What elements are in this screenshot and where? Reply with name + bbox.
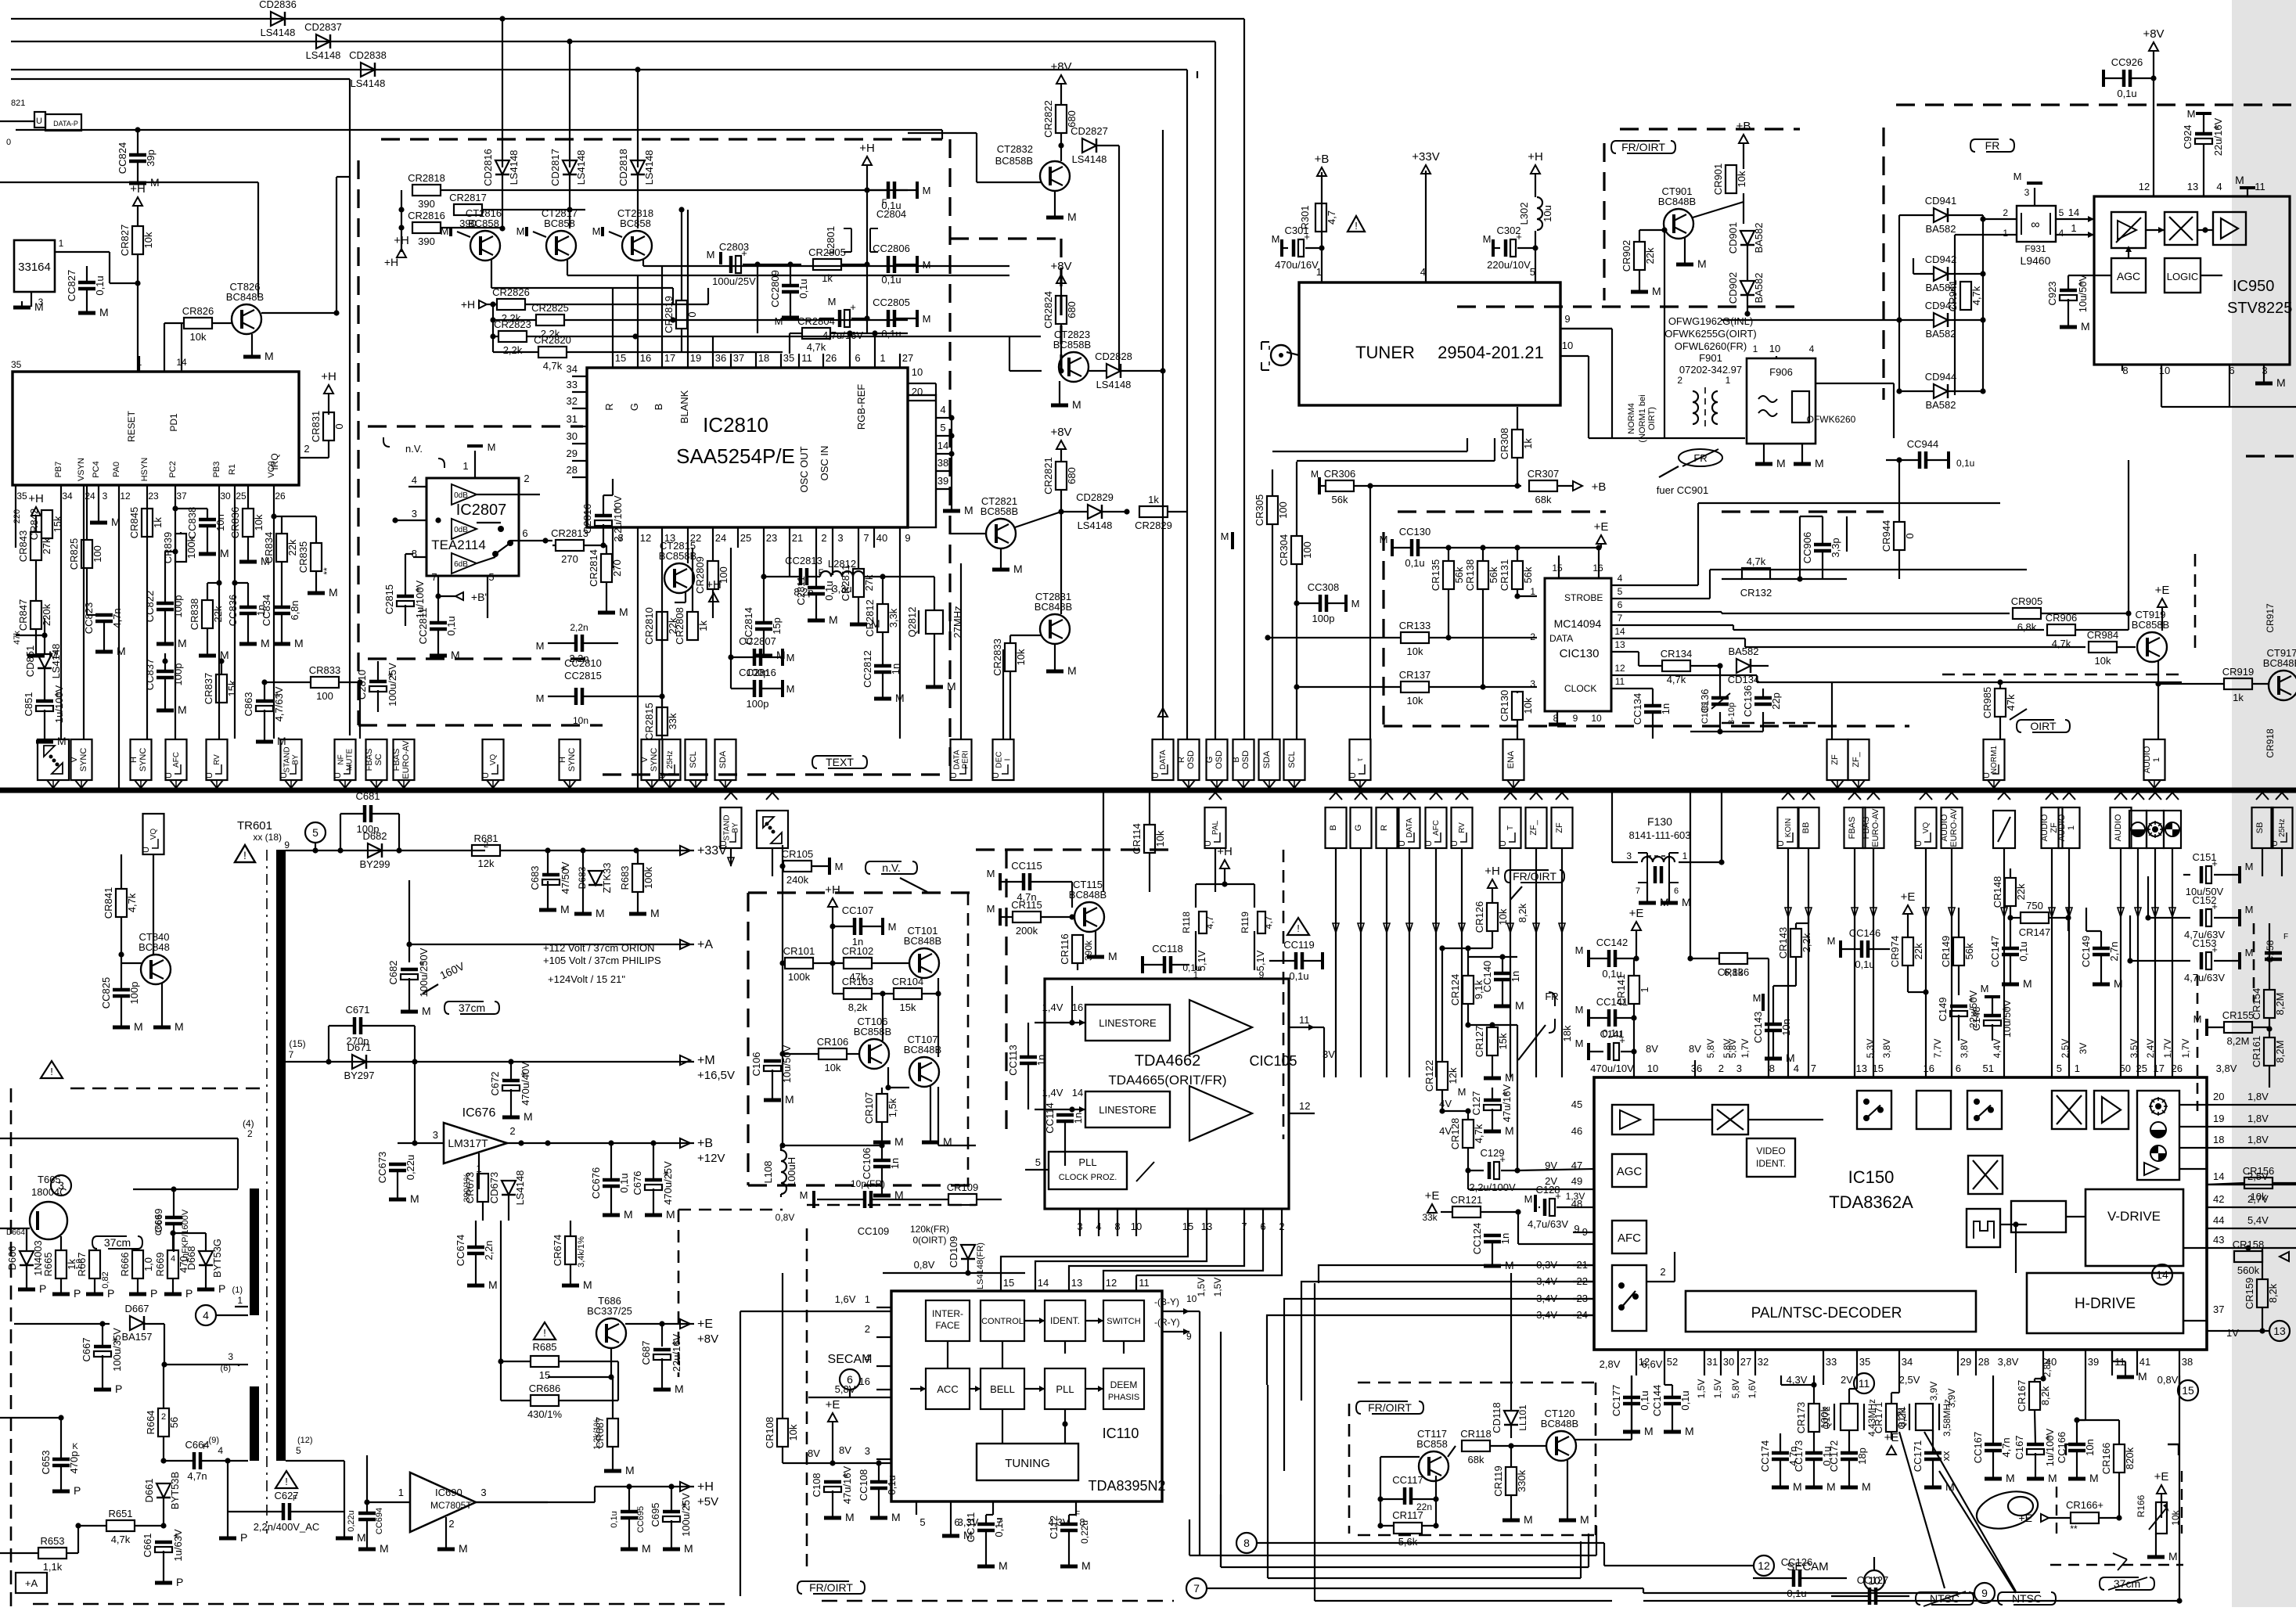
svg-text:15k: 15k <box>226 680 238 696</box>
svg-text:R653: R653 <box>40 1535 64 1547</box>
svg-text:DATA: DATA <box>953 750 962 770</box>
svg-text:M: M <box>178 703 187 716</box>
svg-text:38: 38 <box>2182 1356 2193 1368</box>
svg-text:CR2826: CR2826 <box>492 286 530 298</box>
svg-text:34: 34 <box>567 363 578 375</box>
svg-text:CC694: CC694 <box>375 1508 384 1534</box>
svg-text:1k: 1k <box>697 620 709 631</box>
svg-text:BLANK: BLANK <box>678 390 690 423</box>
svg-text:CR2833: CR2833 <box>991 638 1003 676</box>
svg-text:7: 7 <box>863 532 869 544</box>
svg-text:27k: 27k <box>863 574 875 591</box>
svg-text:CC144: CC144 <box>1651 1385 1663 1416</box>
svg-text:4: 4 <box>1618 573 1623 584</box>
svg-text:1n: 1n <box>1660 703 1672 714</box>
svg-text:220k: 220k <box>41 603 52 626</box>
svg-text:LS4148: LS4148 <box>1078 520 1113 531</box>
svg-text:26: 26 <box>275 491 286 502</box>
svg-text:3: 3 <box>2024 187 2030 198</box>
svg-text:3: 3 <box>433 1129 438 1141</box>
svg-text:BA157: BA157 <box>121 1331 152 1343</box>
svg-text:M: M <box>516 225 525 237</box>
svg-text:CR109: CR109 <box>947 1181 978 1193</box>
svg-text:M: M <box>828 296 837 307</box>
svg-text:CR307: CR307 <box>1528 468 1559 480</box>
svg-text:470u/25V: 470u/25V <box>662 1161 674 1205</box>
svg-text:27: 27 <box>902 352 913 364</box>
svg-text:BC858B: BC858B <box>981 505 1018 517</box>
svg-text:0,1u: 0,1u <box>797 279 809 298</box>
svg-text:1k: 1k <box>822 272 833 284</box>
svg-text:R1: R1 <box>228 464 237 475</box>
svg-text:BB: BB <box>1801 822 1811 834</box>
svg-text:CR2823: CR2823 <box>494 318 531 330</box>
svg-text:CR686: CR686 <box>529 1383 560 1394</box>
svg-text:30: 30 <box>567 430 578 442</box>
svg-text:M: M <box>2235 174 2244 186</box>
svg-text:!: ! <box>543 1327 546 1339</box>
svg-text:L302: L302 <box>1518 203 1530 225</box>
svg-text:C687: C687 <box>640 1340 652 1365</box>
svg-text:18: 18 <box>758 352 769 364</box>
svg-text:M: M <box>117 645 126 657</box>
svg-text:56: 56 <box>168 1417 180 1428</box>
svg-text:1,5V: 1,5V <box>1212 1278 1223 1297</box>
svg-text:2,7n: 2,7n <box>2108 941 2120 961</box>
svg-text:IC950: IC950 <box>2233 278 2274 295</box>
svg-text:43: 43 <box>2213 1234 2224 1246</box>
svg-text:BC858: BC858 <box>620 218 651 229</box>
svg-text:CC109: CC109 <box>858 1225 889 1237</box>
svg-text:1: 1 <box>1682 850 1688 861</box>
svg-text:M: M <box>624 1208 633 1221</box>
svg-text:M: M <box>2168 1550 2178 1562</box>
svg-text:CR918: CR918 <box>2265 728 2276 758</box>
svg-text:OFWL6260(FR): OFWL6260(FR) <box>1675 340 1747 352</box>
svg-text:100u/25V: 100u/25V <box>712 275 756 287</box>
svg-text:3: 3 <box>58 1179 64 1192</box>
svg-text:+H: +H <box>825 883 840 897</box>
svg-text:7: 7 <box>289 1049 294 1060</box>
svg-text:AUDIO: AUDIO <box>2057 814 2067 841</box>
svg-text:R118: R118 <box>1181 912 1192 933</box>
svg-text:1n: 1n <box>1510 971 1521 982</box>
svg-text:27: 27 <box>1740 1356 1751 1368</box>
svg-text:M: M <box>1013 563 1023 575</box>
svg-text:M: M <box>488 441 496 453</box>
svg-text:KOIN: KOIN <box>1784 818 1793 837</box>
svg-text:AUDIO: AUDIO <box>1940 814 1949 841</box>
svg-text:BC858B: BC858B <box>995 155 1033 167</box>
svg-text:CR308: CR308 <box>1499 428 1510 459</box>
svg-text:M: M <box>1380 534 1388 545</box>
svg-text:4,7: 4,7 <box>1204 915 1215 929</box>
svg-text:21: 21 <box>792 532 803 544</box>
svg-text:C136: C136 <box>1700 703 1710 724</box>
svg-text:470u/40V: 470u/40V <box>520 1062 531 1106</box>
svg-text:10k: 10k <box>1407 645 1423 657</box>
svg-text:ZTK33: ZTK33 <box>601 862 613 893</box>
svg-text:M: M <box>1862 1480 1871 1493</box>
svg-text:+H: +H <box>461 298 475 311</box>
svg-text:4,7k: 4,7k <box>2052 638 2071 649</box>
svg-text:!: ! <box>1297 922 1300 934</box>
svg-text:U: U <box>205 772 214 779</box>
svg-text:M: M <box>536 692 545 704</box>
svg-text:15: 15 <box>2182 1384 2194 1397</box>
svg-text:12: 12 <box>2139 181 2150 192</box>
svg-text:CR121: CR121 <box>1451 1194 1482 1206</box>
svg-text:IC2810: IC2810 <box>703 413 768 437</box>
svg-text:M: M <box>1575 1004 1584 1016</box>
svg-text:L2801: L2801 <box>825 226 837 254</box>
svg-text:CR305: CR305 <box>1254 494 1265 526</box>
svg-text:4V: 4V <box>1439 1098 1452 1109</box>
svg-text:PERI: PERI <box>962 750 970 768</box>
svg-text:SB: SB <box>2255 822 2265 834</box>
svg-text:3,8V: 3,8V <box>2216 1063 2237 1074</box>
svg-text:4: 4 <box>203 1309 209 1322</box>
svg-text:11: 11 <box>2255 181 2265 192</box>
svg-text:TUNING: TUNING <box>1005 1457 1050 1470</box>
svg-text:7: 7 <box>431 571 437 583</box>
svg-text:CC126: CC126 <box>1781 1556 1812 1568</box>
svg-text:M: M <box>220 547 229 559</box>
svg-text:CD2818: CD2818 <box>617 149 629 186</box>
svg-text:M: M <box>1524 1513 1533 1526</box>
svg-text:SECAM: SECAM <box>828 1353 873 1366</box>
svg-text:SYNC: SYNC <box>139 748 148 772</box>
svg-text:CC906: CC906 <box>1801 532 1813 563</box>
svg-text:+112 Volt / 37cm ORION: +112 Volt / 37cm ORION <box>543 942 654 954</box>
svg-text:CR841: CR841 <box>103 887 114 919</box>
svg-text:M: M <box>1827 935 1836 947</box>
svg-text:CC177: CC177 <box>1610 1385 1622 1416</box>
svg-text:M: M <box>380 1542 389 1555</box>
svg-text:CR166+: CR166+ <box>2066 1499 2103 1511</box>
svg-text:4,7u/63V: 4,7u/63V <box>1528 1218 1568 1230</box>
svg-text:R: R <box>1177 757 1186 763</box>
svg-text:C2803: C2803 <box>719 241 749 253</box>
svg-text:4,7k: 4,7k <box>807 341 826 353</box>
svg-text:1,7V: 1,7V <box>2162 1039 2173 1059</box>
svg-text:OSD: OSD <box>1241 750 1251 769</box>
svg-text:(4): (4) <box>243 1118 254 1129</box>
svg-text:R683: R683 <box>619 865 631 890</box>
svg-text:PD1: PD1 <box>168 413 179 432</box>
svg-text:M: M <box>1458 1086 1466 1098</box>
svg-text:0,22u: 0,22u <box>1079 1520 1090 1544</box>
svg-text:CR171: CR171 <box>1873 1402 1884 1433</box>
svg-text:2V: 2V <box>1841 1374 1853 1386</box>
svg-text:C924: C924 <box>2182 124 2193 149</box>
svg-text:15p: 15p <box>771 617 783 635</box>
svg-text:120k(FR): 120k(FR) <box>910 1224 949 1235</box>
svg-text:33164: 33164 <box>18 261 51 274</box>
svg-text:25Hz: 25Hz <box>666 750 675 768</box>
svg-text:LS4148: LS4148 <box>50 644 62 679</box>
svg-text:(15): (15) <box>289 1038 305 1049</box>
svg-text:CC837: CC837 <box>144 659 156 690</box>
svg-text:0: 0 <box>1904 533 1916 538</box>
svg-text:6dB: 6dB <box>454 560 468 569</box>
svg-text:BC848B: BC848B <box>1658 196 1696 207</box>
svg-text:CR124: CR124 <box>1449 974 1461 1005</box>
svg-text:PC2: PC2 <box>168 461 178 477</box>
svg-text:C2815: C2815 <box>383 584 395 614</box>
svg-text:OSD: OSD <box>1186 750 1196 769</box>
svg-text:M: M <box>775 315 783 327</box>
svg-text:6,6V: 6,6V <box>1642 1358 1663 1370</box>
svg-text:1,1k: 1,1k <box>43 1561 63 1573</box>
svg-text:4,4V: 4,4V <box>1992 1039 2003 1059</box>
svg-text:M: M <box>987 868 995 879</box>
svg-text:+M: +M <box>697 1054 715 1067</box>
svg-text:8,2k: 8,2k <box>2267 1283 2279 1303</box>
svg-text:M: M <box>786 683 795 695</box>
svg-text:100u/25V: 100u/25V <box>387 663 398 707</box>
svg-text:1: 1 <box>2071 222 2076 234</box>
svg-text:H-DRIVE: H-DRIVE <box>2075 1296 2136 1312</box>
svg-text:CR116: CR116 <box>1059 933 1071 965</box>
svg-text:U: U <box>1398 840 1407 847</box>
svg-text:13: 13 <box>2273 1325 2286 1337</box>
svg-text:7: 7 <box>1811 1063 1816 1074</box>
svg-text:HSYN: HSYN <box>140 458 149 482</box>
svg-text:10k: 10k <box>253 514 265 530</box>
svg-text:37: 37 <box>2213 1304 2224 1315</box>
svg-text:TUNER: TUNER <box>1355 343 1415 362</box>
svg-text:BA582: BA582 <box>1925 223 1956 235</box>
svg-text:CR115: CR115 <box>1011 899 1042 911</box>
svg-text:LS4148: LS4148 <box>306 49 341 61</box>
svg-text:24: 24 <box>715 532 726 544</box>
svg-text:2,2n: 2,2n <box>570 622 588 633</box>
svg-text:4,7u/63V: 4,7u/63V <box>2184 972 2225 984</box>
svg-text:(1): (1) <box>232 1286 243 1295</box>
svg-text:2: 2 <box>524 473 529 484</box>
svg-text:C661: C661 <box>142 1533 153 1557</box>
svg-text:7,7V: 7,7V <box>1932 1039 1943 1059</box>
svg-text:M: M <box>441 225 449 237</box>
svg-text:M: M <box>1644 1425 1654 1437</box>
svg-text:CC108: CC108 <box>858 1469 869 1501</box>
svg-text:C681: C681 <box>355 790 380 802</box>
svg-text:SYNC: SYNC <box>567 748 577 772</box>
svg-text:52: 52 <box>1667 1356 1678 1368</box>
svg-text:3,8V: 3,8V <box>1998 1356 2019 1368</box>
svg-text:LS4148: LS4148 <box>508 150 520 185</box>
svg-text:M: M <box>57 735 67 747</box>
svg-text:2,2n: 2,2n <box>483 1240 495 1260</box>
svg-text:4,7: 4,7 <box>1326 210 1337 225</box>
svg-text:+8V: +8V <box>1050 426 1071 439</box>
svg-text:NORM4: NORM4 <box>1627 403 1636 434</box>
svg-text:M: M <box>2138 1370 2147 1383</box>
svg-text:M: M <box>963 1529 973 1541</box>
svg-text:VQ: VQ <box>489 754 498 766</box>
svg-text:+E: +E <box>1425 1189 1440 1203</box>
svg-text:M: M <box>1515 999 1524 1012</box>
svg-text:G: G <box>628 403 640 411</box>
svg-text:0,22u: 0,22u <box>405 1155 416 1181</box>
svg-text:1,6V: 1,6V <box>835 1293 856 1305</box>
svg-text:1,5V: 1,5V <box>1196 1278 1207 1297</box>
svg-text:3,4k/1%: 3,4k/1% <box>577 1236 586 1268</box>
svg-text:29: 29 <box>1960 1356 1971 1368</box>
svg-text:42: 42 <box>2213 1193 2224 1205</box>
svg-text:+H: +H <box>394 234 409 247</box>
svg-text:14: 14 <box>2068 207 2079 218</box>
svg-text:100k: 100k <box>185 536 197 559</box>
svg-text:C106: C106 <box>750 1052 762 1076</box>
svg-text:3,3p: 3,3p <box>1830 538 1841 557</box>
svg-text:40: 40 <box>876 532 887 544</box>
svg-text:5: 5 <box>312 826 318 839</box>
svg-text:B: B <box>1329 825 1338 830</box>
svg-text:M: M <box>1311 469 1319 480</box>
svg-text:2,2u/100V: 2,2u/100V <box>1469 1181 1516 1193</box>
svg-text:CC134: CC134 <box>1632 693 1643 725</box>
svg-text:CR2810: CR2810 <box>643 607 655 645</box>
svg-text:2: 2 <box>821 532 826 544</box>
svg-text:0(OIRT): 0(OIRT) <box>912 1235 946 1246</box>
svg-text:BYT53B: BYT53B <box>169 1472 181 1509</box>
svg-text:M: M <box>2089 1472 2099 1484</box>
svg-text:M: M <box>459 1542 468 1555</box>
svg-text:D661: D661 <box>143 1478 155 1502</box>
svg-text:M: M <box>1067 210 1077 223</box>
svg-text:CR117: CR117 <box>1392 1509 1423 1521</box>
svg-text:M: M <box>923 185 931 196</box>
svg-text:RV: RV <box>1458 822 1466 833</box>
svg-text:C129: C129 <box>1480 1147 1504 1159</box>
svg-text:9: 9 <box>1564 313 1570 325</box>
svg-text:6: 6 <box>855 352 860 364</box>
svg-text:M: M <box>891 1511 901 1523</box>
svg-text:11: 11 <box>1299 1014 1310 1026</box>
svg-text:0,1u: 0,1u <box>1639 1390 1650 1410</box>
svg-text:4: 4 <box>171 1254 175 1264</box>
svg-text:RESET: RESET <box>126 410 137 442</box>
svg-text:C151: C151 <box>2192 851 2216 863</box>
svg-text:IC110: IC110 <box>1103 1426 1139 1441</box>
svg-text:τ: τ <box>1356 758 1365 761</box>
svg-text:22u/16V: 22u/16V <box>2212 117 2224 156</box>
svg-text:0,1u: 0,1u <box>445 616 457 635</box>
svg-text:BC858: BC858 <box>468 218 499 229</box>
svg-text:1k: 1k <box>1148 494 1159 505</box>
svg-text:1: 1 <box>1753 343 1758 354</box>
svg-text:3: 3 <box>1736 1063 1742 1074</box>
svg-text:1,6V: 1,6V <box>1747 1379 1758 1399</box>
svg-text:H: H <box>558 757 567 763</box>
svg-text:+B': +B' <box>471 591 487 603</box>
svg-text:C667: C667 <box>81 1337 92 1361</box>
svg-text:35: 35 <box>11 359 22 370</box>
svg-text:14: 14 <box>1038 1277 1049 1289</box>
svg-text:39p: 39p <box>145 149 157 167</box>
svg-text:47u/16V: 47u/16V <box>1501 1084 1513 1122</box>
svg-text:2: 2 <box>484 840 488 850</box>
svg-text:CR984: CR984 <box>2087 629 2118 641</box>
svg-text:BC858B: BC858B <box>2132 619 2169 631</box>
svg-text:15: 15 <box>1003 1277 1014 1289</box>
svg-text:22k: 22k <box>286 539 298 556</box>
svg-text:FR: FR <box>1545 991 1558 1002</box>
svg-text:220: 220 <box>13 509 22 523</box>
svg-text:C653: C653 <box>40 1450 52 1474</box>
svg-text:M: M <box>488 1278 498 1291</box>
svg-text:0: 0 <box>6 138 11 147</box>
svg-text:+H: +H <box>130 182 146 196</box>
svg-text:CD851: CD851 <box>24 645 36 677</box>
svg-text:5,1V: 5,1V <box>1254 950 1266 971</box>
svg-text:CR902: CR902 <box>1621 240 1632 271</box>
svg-text:CC2806: CC2806 <box>873 243 910 254</box>
svg-text:PB7: PB7 <box>54 462 63 478</box>
svg-text:+E: +E <box>826 1398 840 1411</box>
svg-text:CR2825: CR2825 <box>531 302 569 314</box>
svg-text:3,8V: 3,8V <box>1959 1039 1970 1059</box>
svg-text:CR842: CR842 <box>28 509 40 540</box>
svg-text:19: 19 <box>690 352 701 364</box>
svg-text:CR941: CR941 <box>1947 280 1959 311</box>
svg-text:CC2812: CC2812 <box>862 650 873 688</box>
svg-text:CR919: CR919 <box>2222 666 2254 678</box>
svg-text:+B: +B <box>697 1137 713 1150</box>
svg-text:TDA8395N2: TDA8395N2 <box>1088 1478 1165 1494</box>
svg-text:34: 34 <box>1902 1356 1913 1368</box>
svg-text:+E: +E <box>1901 890 1916 904</box>
svg-text:M: M <box>99 306 109 318</box>
svg-text:CR130: CR130 <box>1499 690 1510 721</box>
svg-text:CD118: CD118 <box>1491 1402 1502 1433</box>
svg-text:4,7n: 4,7n <box>111 608 123 627</box>
svg-text:0,1u: 0,1u <box>1289 970 1308 982</box>
svg-text:LS4148: LS4148 <box>575 150 587 185</box>
svg-text:390: 390 <box>418 198 435 210</box>
svg-text:M: M <box>583 1278 592 1291</box>
svg-text:AGC: AGC <box>1617 1165 1643 1178</box>
svg-text:M: M <box>1483 233 1492 245</box>
svg-text:+8V: +8V <box>1050 60 1071 74</box>
svg-text:CD2829: CD2829 <box>1076 491 1114 503</box>
svg-text:29504-201.21: 29504-201.21 <box>1438 343 1544 362</box>
svg-text:23: 23 <box>766 532 777 544</box>
svg-text:M: M <box>451 649 460 661</box>
svg-text:13: 13 <box>1071 1277 1082 1289</box>
svg-text:100: 100 <box>316 690 333 702</box>
svg-text:M: M <box>2023 977 2032 990</box>
svg-text:4,7k: 4,7k <box>126 893 138 912</box>
svg-text:CC834: CC834 <box>261 595 272 626</box>
svg-text:CC2815: CC2815 <box>564 670 602 681</box>
svg-text:1u/100V: 1u/100V <box>2044 1428 2056 1466</box>
svg-text:CR136: CR136 <box>1718 966 1749 978</box>
svg-text:39: 39 <box>937 475 948 487</box>
svg-text:15: 15 <box>1552 563 1563 574</box>
svg-text:NTSC: NTSC <box>2012 1592 2042 1605</box>
svg-text:AFC: AFC <box>172 752 181 768</box>
svg-text:IC150: IC150 <box>1848 1167 1895 1187</box>
svg-text:8V: 8V <box>1646 1043 1658 1055</box>
svg-text:M: M <box>1793 1480 1802 1493</box>
svg-text:CC836: CC836 <box>227 595 239 626</box>
svg-text:FR/OIRT: FR/OIRT <box>1621 141 1665 153</box>
svg-text:xx (18): xx (18) <box>253 832 282 843</box>
svg-text:M: M <box>1981 983 1989 994</box>
